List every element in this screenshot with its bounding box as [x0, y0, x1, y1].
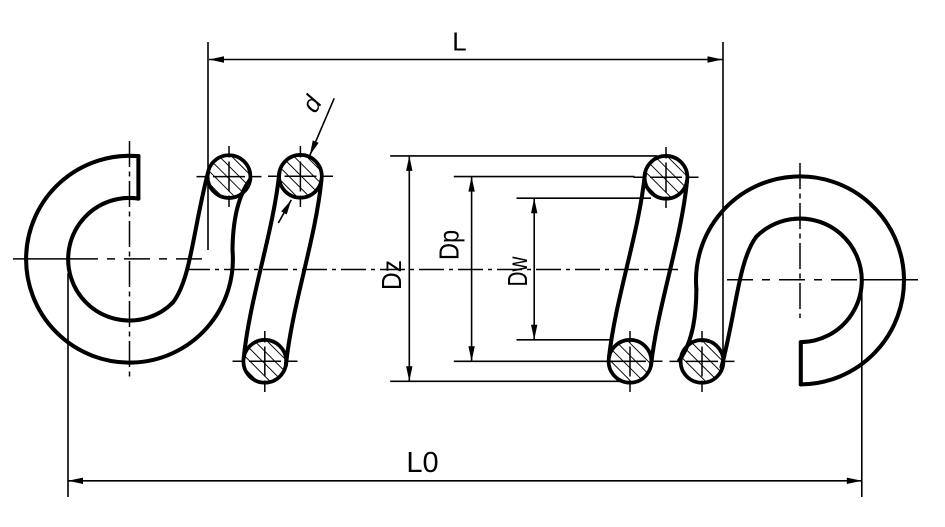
strand S3 right edge (T3 to B2) [651, 181, 687, 365]
d lower arrow [281, 198, 294, 214]
svg-text:L0: L0 [406, 447, 438, 479]
B1 vertical centerline [264, 331, 266, 392]
left hook inner arc [68, 198, 173, 321]
dimension L0 extension line right [861, 281, 863, 497]
strand S2 left edge (T2 to B1) [244, 172, 280, 357]
svg-text:Dp: Dp [434, 230, 465, 260]
left hook outer arc [26, 156, 233, 363]
dimension Dw line [533, 198, 535, 340]
L arrow left [209, 56, 224, 62]
d leader upper line [310, 98, 334, 155]
wire section circle T2 [279, 155, 322, 198]
right hook wire end face [799, 342, 803, 384]
dimension Dp extension line bottom [454, 360, 646, 362]
B3 vertical centerline [701, 331, 703, 392]
strand S1 right edge (hook to T1) [233, 180, 251, 251]
T1 vertical centerline [228, 146, 230, 207]
right hook outer arc [696, 176, 904, 384]
strand S4 outer edge (B3 to right hook) [679, 290, 696, 361]
wire section circle B3 [681, 340, 724, 383]
d upper arrow [307, 140, 319, 156]
right hook vertical centerline [799, 163, 801, 318]
left hook vertical centerline [129, 141, 131, 377]
svg-text:Dw: Dw [502, 256, 533, 287]
T3 vertical centerline [665, 147, 667, 208]
dimension Dz extension line bottom [390, 380, 623, 382]
T3 horizontal centerline [634, 176, 699, 178]
main spring axis centerline [185, 269, 679, 271]
B1 horizontal centerline [233, 360, 298, 362]
dimension L0 line [68, 480, 862, 482]
L0 arrow left [68, 478, 83, 484]
svg-text:Dz: Dz [376, 260, 407, 290]
L0 arrow right [847, 478, 862, 484]
strand S1 left edge (hook to T1) [173, 173, 208, 303]
dimension Dp line [471, 177, 473, 362]
dimension L extension line left [207, 42, 209, 250]
dimension Dz line [408, 156, 410, 381]
wire section circle B2 [609, 340, 652, 383]
B2 vertical centerline [629, 331, 631, 392]
dimension Dp extension line top [454, 176, 635, 178]
d leader lower line [278, 200, 291, 223]
strand S2 right edge (T2 to B1) [286, 180, 322, 365]
right hook inner arc [756, 219, 861, 343]
left hook wire end face [136, 156, 140, 199]
wire section circle T3 [645, 156, 688, 199]
B2 horizontal centerline [598, 360, 663, 362]
Dw arrow top [531, 198, 537, 213]
B3 horizontal centerline [670, 360, 735, 362]
svg-text:L: L [452, 27, 466, 57]
dimension L0 extension line left [67, 274, 69, 498]
strand S3 left edge (T3 to B2) [609, 173, 645, 357]
wire section circle T1 [208, 155, 251, 198]
T2 horizontal centerline [268, 175, 333, 177]
dimension Dz extension line top [390, 155, 657, 157]
dimension Dw extension line top [517, 197, 652, 199]
right hook horizontal centerline [727, 279, 862, 281]
T2 vertical centerline [299, 146, 301, 207]
Dz arrow bottom [406, 366, 412, 381]
wire section circle B1 [243, 340, 286, 383]
dimension L line [209, 59, 723, 61]
Dw arrow bottom [531, 325, 537, 340]
Dp arrow top [468, 177, 474, 192]
dimension L extension line right [722, 42, 724, 364]
L arrow right [708, 56, 723, 62]
Dp arrow bottom [468, 346, 474, 361]
Dz arrow top [406, 156, 412, 171]
dimension Dw extension line bottom [517, 339, 611, 341]
strand S4 inner edge (B3 to right hook) [722, 237, 757, 367]
T1 horizontal centerline [197, 176, 262, 178]
left hook horizontal centerline [13, 258, 72, 260]
